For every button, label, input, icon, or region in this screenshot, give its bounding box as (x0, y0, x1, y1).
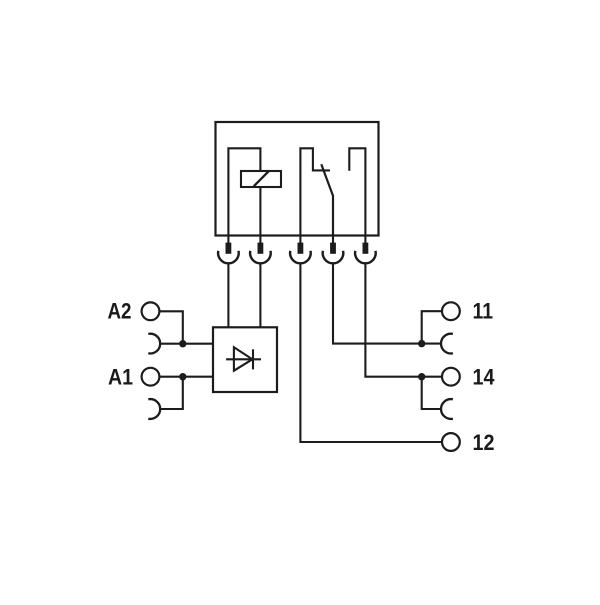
svg-text:11: 11 (473, 298, 494, 323)
svg-text:A1: A1 (108, 365, 133, 390)
svg-text:12: 12 (473, 430, 495, 455)
svg-text:A2: A2 (108, 299, 132, 324)
svg-text:14: 14 (473, 364, 496, 389)
